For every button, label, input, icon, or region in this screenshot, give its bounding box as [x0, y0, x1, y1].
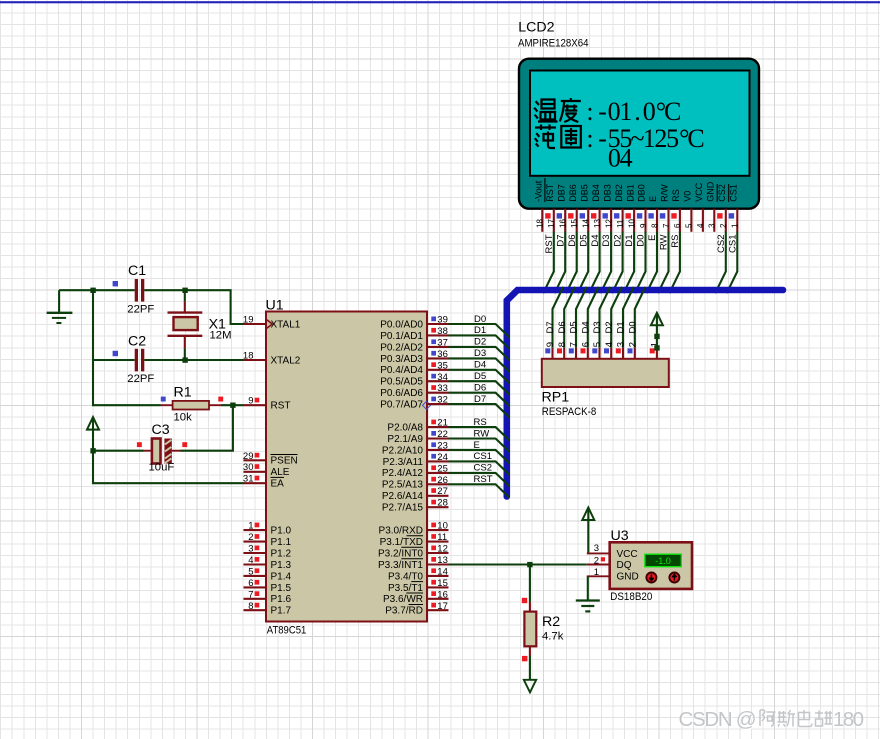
wire U3 GND down: [587, 576, 589, 599]
wire U1 P2.4 to bus, net CS2: [449, 463, 510, 487]
junction R1/RST/C3: [230, 403, 235, 408]
svg-text:D2: D2: [613, 235, 624, 247]
svg-text:AMPIRE128X64: AMPIRE128X64: [518, 38, 589, 50]
wire vertical C1-C2-R1: [93, 290, 161, 405]
svg-text:28: 28: [437, 498, 448, 509]
U1 pin 9 RST: [244, 396, 291, 412]
wire U1 P2.2 to bus, net E: [449, 440, 510, 463]
wire LCD pin 9 to bus, net D0: [635, 232, 647, 294]
U3 body: [610, 542, 692, 589]
svg-text:V0: V0: [683, 191, 693, 202]
junction at crystal bottom: [182, 357, 187, 362]
LCD2 pin 9 DB0: [637, 184, 648, 232]
wire C2 left: [93, 359, 135, 361]
svg-text:-1.0: -1.0: [655, 556, 671, 566]
svg-text:3: 3: [708, 223, 717, 228]
LCD2 pin 11 DB2: [614, 184, 625, 232]
U1 pin 25 P2.4/A12: [382, 463, 449, 479]
svg-text:12: 12: [604, 219, 613, 228]
svg-text::-55~125°C: :-55~125°C: [586, 124, 704, 153]
LCD2 pin 3 GND: [706, 181, 717, 232]
U1 pin 14 P3.4/T0: [388, 566, 449, 582]
svg-text:RW: RW: [474, 428, 490, 439]
svg-text:D6: D6: [557, 321, 568, 333]
svg-text:D3: D3: [601, 235, 612, 247]
svg-text:2: 2: [248, 532, 253, 543]
wire U1 P3.3 to U3 DQ: [449, 563, 587, 565]
svg-text:RESPACK-8: RESPACK-8: [542, 406, 597, 418]
U1 pin 28 P2.7/A15: [382, 498, 449, 514]
U1 pin 31 EA: [243, 474, 284, 490]
svg-text:8: 8: [557, 342, 568, 347]
svg-text:CS2: CS2: [474, 463, 492, 474]
power VCC arrow at RP1 pin 1: [651, 313, 663, 348]
wire U1 P0.1 to bus, net D1: [449, 325, 510, 349]
svg-text:26: 26: [437, 475, 448, 486]
svg-text:5: 5: [592, 342, 603, 347]
svg-text:5: 5: [685, 223, 694, 228]
wire U1 P0.2 to bus, net D2: [449, 337, 510, 361]
svg-text:17: 17: [437, 601, 448, 612]
U1 pin 5 P1.4: [244, 566, 292, 582]
wire crystal bottom: [184, 348, 186, 360]
svg-text:P0.2/AD2: P0.2/AD2: [380, 342, 423, 353]
svg-text:10: 10: [437, 521, 448, 532]
svg-text:16: 16: [437, 589, 448, 600]
svg-text:CS2: CS2: [717, 184, 727, 202]
LCD2 pin 12 DB3: [602, 184, 613, 232]
ground (crystal caps): [47, 290, 73, 323]
svg-text:P1.5: P1.5: [271, 583, 292, 594]
svg-text:E: E: [474, 440, 480, 451]
svg-text:P3.3/INT1: P3.3/INT1: [378, 560, 423, 571]
R2 bottom pin state square: [522, 656, 527, 661]
svg-text:CS1: CS1: [474, 451, 492, 462]
svg-text:DB2: DB2: [614, 184, 624, 202]
svg-text:9: 9: [545, 342, 556, 347]
svg-text:P3.6/WR: P3.6/WR: [383, 594, 423, 605]
U1 pin 24 P2.3/A11: [383, 452, 449, 468]
U1 pin 2 P1.1: [244, 532, 292, 548]
U1 body: [266, 312, 427, 622]
U1 pin 18 XTAL2: [243, 351, 301, 367]
svg-text:P0.3/AD3: P0.3/AD3: [380, 354, 423, 365]
RP1 pin 8: [557, 342, 568, 359]
svg-text:7: 7: [569, 342, 580, 347]
svg-text:3: 3: [248, 544, 253, 555]
svg-text:34: 34: [437, 372, 448, 383]
svg-text:PSEN: PSEN: [271, 456, 298, 467]
svg-text:33: 33: [437, 383, 448, 394]
wire LCD pin 17 to bus, net RST: [543, 232, 555, 294]
svg-text:P3.0/RXD: P3.0/RXD: [379, 526, 423, 537]
svg-text:3: 3: [616, 342, 627, 347]
CSDN watermark: [679, 708, 865, 732]
svg-text:DS18B20: DS18B20: [610, 591, 652, 603]
wire LCD pin 8 to bus, net E: [646, 232, 658, 294]
svg-text:P2.4/A12: P2.4/A12: [382, 468, 424, 479]
svg-text:P2.0/A8: P2.0/A8: [387, 422, 423, 433]
svg-text:P0.4/AD4: P0.4/AD4: [380, 365, 423, 376]
wire bus to RP1 pin 4, net D2: [604, 287, 622, 348]
svg-text:13: 13: [593, 219, 602, 228]
svg-text:3: 3: [594, 543, 599, 554]
U3 temperature display: [645, 554, 681, 567]
svg-text:32: 32: [437, 395, 448, 406]
svg-text:24: 24: [437, 452, 448, 463]
U1 pin 27 P2.6/A14: [382, 486, 449, 502]
svg-text:D7: D7: [545, 321, 556, 333]
svg-text:31: 31: [243, 474, 254, 485]
svg-text:P3.2/INT0: P3.2/INT0: [378, 548, 423, 559]
U3 pin 2 DQ: [587, 555, 632, 571]
svg-text:18: 18: [243, 351, 254, 362]
svg-text:P1.7: P1.7: [271, 606, 292, 617]
wire LCD pin 2 to bus, net CS2: [715, 232, 727, 294]
RP1 pin 1: [650, 342, 661, 359]
svg-text:C3: C3: [152, 422, 170, 438]
svg-text:36: 36: [437, 349, 448, 360]
RP1 pin 7: [569, 342, 580, 359]
svg-text:P1.3: P1.3: [271, 560, 292, 571]
wire LCD pin 10 to bus, net D1: [624, 232, 636, 294]
svg-text:P2.7/A15: P2.7/A15: [382, 503, 424, 514]
U1 pin 26 P2.5/A13: [382, 475, 449, 491]
U1 pin 19 XTAL1: [243, 315, 301, 331]
svg-text:GND: GND: [617, 572, 639, 583]
LCD2 pin 2 CS2: [717, 184, 728, 232]
wire bus to RP1 pin 9, net D7: [545, 287, 563, 348]
svg-text:23: 23: [437, 440, 448, 451]
svg-text:RS: RS: [474, 417, 487, 428]
svg-text:4: 4: [604, 342, 615, 347]
U1 pin 17 P3.7/RD: [385, 601, 448, 617]
svg-text:D3: D3: [592, 321, 603, 333]
svg-text:D5: D5: [578, 235, 589, 247]
svg-text:D4: D4: [474, 360, 486, 371]
LCD screen text line1 CJK 度: [560, 98, 581, 122]
LCD2 pin 18 -Vout: [534, 178, 545, 232]
U1 pin 34 P0.5/AD5: [380, 372, 448, 388]
wire LCD pin 14 to bus, net D5: [578, 232, 590, 294]
svg-text:P1.6: P1.6: [271, 594, 292, 605]
svg-text:R1: R1: [174, 384, 192, 400]
wire C3 left: [93, 450, 144, 452]
svg-text:C1: C1: [128, 263, 146, 279]
resistor R2: [524, 602, 536, 656]
U1 pin 16 P3.6/WR: [383, 589, 449, 605]
svg-text:RP1: RP1: [542, 390, 570, 406]
RP1 pin 2: [627, 342, 638, 359]
junction on RP1 pin1 stem (upper): [654, 334, 659, 339]
wire DQ junction down to R2: [529, 565, 531, 602]
LCD2 pin 6 RS: [671, 189, 682, 232]
LCD2 pin 1 CS1: [729, 184, 740, 232]
svg-text:14: 14: [437, 566, 448, 577]
U1 pin 11 P3.1/TXD: [380, 532, 449, 548]
resistor R1: [161, 401, 222, 410]
svg-text:P2.3/A11: P2.3/A11: [383, 457, 424, 468]
wire LCD pin 15 to bus, net D6: [566, 232, 578, 294]
LCD2 screen: [530, 71, 750, 176]
svg-text:DB5: DB5: [579, 184, 589, 202]
svg-text:CS2: CS2: [716, 235, 727, 253]
U1 pin 33 P0.6/AD6: [380, 383, 448, 399]
svg-text:29: 29: [243, 451, 254, 462]
svg-text:GND: GND: [706, 181, 716, 202]
svg-text:38: 38: [437, 326, 448, 337]
svg-text:EA: EA: [271, 479, 285, 490]
svg-text:D5: D5: [474, 371, 486, 382]
ground arrow below R2: [524, 680, 536, 693]
wire R2 to ground arrow: [529, 656, 531, 680]
wire LCD pin 13 to bus, net D4: [589, 232, 601, 294]
U1 pin 35 P0.4/AD4: [380, 360, 448, 376]
svg-text:DB3: DB3: [602, 184, 612, 202]
wire C1 to XTAL1 corner: [144, 290, 243, 324]
wire U1 P2.3 to bus, net CS1: [449, 451, 510, 475]
svg-text:D4: D4: [590, 235, 601, 247]
svg-text:D1: D1: [474, 325, 486, 336]
wire U1 P0.3 to bus, net D3: [449, 348, 510, 372]
svg-text:D1: D1: [616, 321, 627, 333]
wire U1 P0.6 to bus, net D6: [449, 383, 510, 407]
svg-text:7: 7: [662, 223, 671, 228]
wire bus to RP1 pin 2, net D0: [627, 287, 645, 348]
wire U1 P0.4 to bus, net D4: [449, 360, 510, 384]
svg-text:P3.4/T0: P3.4/T0: [388, 571, 423, 582]
svg-text:1: 1: [248, 521, 253, 532]
svg-text:-Vout: -Vout: [534, 180, 544, 202]
svg-text:11: 11: [437, 532, 447, 543]
RP1 pin 9: [545, 342, 556, 359]
svg-text:D7: D7: [474, 394, 486, 405]
U1 pin 10 P3.0/RXD: [379, 521, 449, 537]
wire C2 to XTAL2: [144, 359, 243, 361]
svg-text:AT89C51: AT89C51: [267, 625, 307, 637]
svg-text:10: 10: [627, 219, 636, 228]
svg-text:CS1: CS1: [727, 235, 738, 253]
svg-text:16: 16: [559, 219, 568, 228]
U1 pin 30 ALE: [243, 462, 290, 478]
svg-text:2: 2: [594, 555, 599, 566]
svg-text:21: 21: [437, 418, 448, 429]
LCD2 pin 15 DB6: [568, 184, 579, 232]
svg-text:R2: R2: [542, 614, 560, 630]
RP1 pin 5: [592, 342, 603, 359]
C1 pin state square: [113, 281, 118, 286]
U1 pin 22 P2.1/A9: [387, 429, 448, 445]
RP1 body: [542, 359, 669, 387]
wire U1 P0.0 to bus, net D0: [449, 314, 510, 338]
wire bus to RP1 pin 7, net D5: [569, 287, 587, 348]
U1 pin 1 P1.0: [244, 521, 292, 537]
svg-text:18: 18: [536, 219, 545, 228]
wire U1 P2.1 to bus, net RW: [449, 428, 510, 452]
svg-text:D6: D6: [567, 235, 578, 247]
svg-text:DB0: DB0: [637, 184, 647, 202]
svg-text:4: 4: [696, 223, 705, 228]
svg-text:25: 25: [437, 463, 448, 474]
U1 pin 21 P2.0/A8: [387, 418, 448, 434]
component anchor marker at P0.7: [423, 401, 431, 409]
svg-text:17: 17: [547, 219, 556, 228]
svg-text:19: 19: [243, 315, 254, 326]
capacitor C1: [135, 279, 145, 302]
svg-text:4: 4: [248, 555, 253, 566]
svg-text:LCD2: LCD2: [518, 20, 554, 36]
svg-text:1: 1: [731, 223, 740, 228]
svg-text:E: E: [647, 235, 658, 241]
svg-text:P2.2/A10: P2.2/A10: [382, 445, 424, 456]
LCD screen text line2 CJK 围: [561, 126, 581, 148]
svg-text:6: 6: [673, 223, 682, 228]
wire LCD pin 1 to bus, net CS1: [727, 232, 739, 294]
wire bus to RP1 pin 8, net D6: [557, 287, 575, 348]
LCD2 pin 16 DB7: [556, 184, 567, 232]
crystal X1: [168, 301, 203, 348]
LCD2 pin 14 DB5: [579, 184, 590, 232]
U1 pin 38 P0.1/AD1: [380, 326, 448, 342]
svg-text:6: 6: [580, 342, 591, 347]
svg-text:12: 12: [437, 544, 448, 555]
LCD2 pin 8 E: [648, 196, 659, 232]
svg-text:DB1: DB1: [625, 184, 635, 202]
svg-text:P1.1: P1.1: [271, 537, 292, 548]
U1 pin 36 P0.3/AD3: [380, 349, 448, 365]
svg-text:RST: RST: [545, 183, 555, 202]
svg-text:D2: D2: [474, 337, 486, 348]
svg-text:CS1: CS1: [729, 184, 739, 202]
svg-text:2: 2: [627, 342, 638, 347]
U1 pin 23 P2.2/A10: [382, 440, 449, 456]
LCD2 pin 4 VCC: [694, 182, 705, 232]
svg-text:ALE: ALE: [271, 467, 290, 478]
svg-text:XTAL2: XTAL2: [271, 355, 301, 366]
LCD2 pin 7 R/W: [660, 184, 671, 232]
wire bus to RP1 pin 6, net D4: [580, 287, 598, 348]
svg-text:8: 8: [650, 223, 659, 228]
ground (U3): [576, 601, 600, 612]
svg-text:D7: D7: [555, 235, 566, 247]
svg-text:D4: D4: [580, 321, 591, 333]
svg-text:D0: D0: [627, 321, 638, 333]
svg-text:2: 2: [719, 223, 728, 228]
svg-text:RS: RS: [670, 235, 681, 248]
U1 pin 6 P1.5: [244, 578, 292, 594]
wire U1 P0.5 to bus, net D5: [449, 371, 510, 395]
wire RST down to C3: [181, 405, 233, 451]
svg-text:RST: RST: [474, 474, 493, 485]
LCD2 pin 17 RST: [545, 183, 556, 232]
svg-text:6: 6: [248, 578, 253, 589]
svg-text:39: 39: [437, 315, 448, 326]
U3 down button: [646, 573, 656, 583]
svg-text:VCC: VCC: [617, 549, 638, 560]
wire VCC to EA: [93, 451, 244, 484]
U1 pin 4 P1.3: [244, 555, 292, 571]
U3 up button: [669, 573, 679, 583]
LCD screen text line2 CJK 范: [535, 125, 556, 149]
capacitor C2: [135, 349, 145, 372]
RP1 pin 6: [580, 342, 591, 359]
U1 pin 39 P0.0/AD0: [380, 315, 448, 331]
svg-text:8: 8: [248, 601, 253, 612]
U1 pin 7 P1.6: [244, 589, 292, 605]
svg-text:P3.5/T1: P3.5/T1: [388, 583, 423, 594]
svg-text:P1.0: P1.0: [271, 526, 292, 537]
U1 pin 32 P0.7/AD7: [380, 395, 448, 411]
svg-text:C2: C2: [128, 334, 146, 350]
svg-text:7: 7: [248, 589, 253, 600]
svg-text:D0: D0: [636, 235, 647, 247]
LCD screen text line1 CJK 温: [534, 100, 557, 122]
svg-text:DQ: DQ: [617, 560, 632, 571]
svg-text:D2: D2: [604, 321, 615, 333]
U1 pin 3 P1.2: [244, 544, 292, 560]
junction node C1/C2 vertical: [90, 288, 95, 293]
LCD2 pin 10 DB1: [625, 184, 636, 232]
C3 left pin state square: [137, 442, 142, 447]
svg-text:13: 13: [437, 555, 448, 566]
svg-text:22PF: 22PF: [127, 373, 154, 385]
svg-text:XTAL1: XTAL1: [271, 319, 301, 330]
U1 pin 8 P1.7: [244, 601, 292, 617]
R1 left pin state square: [161, 397, 166, 402]
R1 right pin state square: [218, 397, 223, 402]
wire LCD pin 6 to bus, net RS: [669, 232, 681, 294]
C3 right pin state square: [182, 442, 187, 447]
U1 pin 37 P0.2/AD2: [380, 337, 448, 353]
RP1 pin 4: [604, 342, 615, 359]
svg-text:P3.1/TXD: P3.1/TXD: [380, 537, 423, 548]
svg-text:DB7: DB7: [556, 184, 566, 202]
junction at crystal top: [182, 288, 187, 293]
wire bus to RP1 pin 5, net D3: [592, 287, 610, 348]
RP1 pin 3: [616, 342, 627, 359]
power VCC arrow (U3): [582, 508, 594, 554]
svg-text:CSDN @: CSDN @: [679, 708, 757, 731]
svg-text:VCC: VCC: [694, 182, 704, 202]
capacitor C3 (electrolytic): [144, 439, 181, 464]
svg-text:P2.5/A13: P2.5/A13: [382, 480, 424, 491]
svg-text:37: 37: [437, 337, 448, 348]
svg-text:P2.1/A9: P2.1/A9: [387, 434, 423, 445]
svg-text:15: 15: [437, 578, 448, 589]
LCD2 pin 5 V0: [683, 191, 694, 232]
svg-text:1: 1: [594, 567, 599, 578]
wire U1 P0.7 to bus, net D7: [449, 394, 510, 418]
svg-text:R/W: R/W: [660, 184, 670, 202]
svg-text:D0: D0: [474, 314, 486, 325]
svg-text:D3: D3: [474, 348, 486, 359]
svg-text:5: 5: [248, 566, 253, 577]
svg-text:12M: 12M: [210, 330, 232, 342]
wire U1 P2.5 to bus, net RST: [449, 474, 510, 498]
svg-text:P1.4: P1.4: [271, 571, 292, 582]
wire R1 to RST: [221, 404, 244, 406]
svg-text:P3.7/RD: P3.7/RD: [385, 606, 423, 617]
svg-text:P2.6/A14: P2.6/A14: [382, 491, 424, 502]
svg-text:E: E: [648, 196, 658, 202]
svg-text:D5: D5: [569, 321, 580, 333]
svg-text:DB6: DB6: [568, 184, 578, 202]
svg-text:27: 27: [437, 486, 448, 497]
junction on RP1 pin1 stem (lower): [654, 345, 659, 350]
wire LCD pin 11 to bus, net D2: [612, 232, 624, 294]
svg-text:RST: RST: [271, 401, 291, 412]
svg-text:22: 22: [437, 429, 448, 440]
